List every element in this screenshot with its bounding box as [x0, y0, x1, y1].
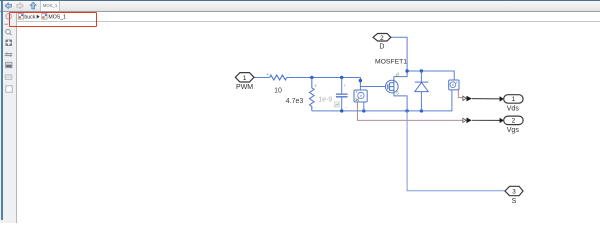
- PS-Simulink converter Vds: [463, 96, 472, 102]
- capacitor C1 leads: [341, 78, 343, 111]
- svg-text:V: V: [452, 83, 455, 87]
- wire source stub: [394, 93, 407, 111]
- square icon: [6, 86, 12, 92]
- wire from port D: [391, 37, 407, 71]
- svg-text:10: 10: [274, 87, 282, 94]
- wire diode bottom pin: [420, 92, 422, 111]
- back button: [5, 3, 11, 9]
- node junction gate sensor tap: [359, 79, 362, 82]
- top toolbar: [0, 0, 600, 12]
- left toolbar icons: [0, 12, 17, 102]
- PS-Simulink converter Vgs: [463, 118, 472, 124]
- svg-text:2: 2: [380, 35, 384, 42]
- zoom icon: [6, 29, 12, 35]
- node junction diode top: [420, 69, 423, 72]
- fit-to-view icon: [6, 40, 12, 46]
- port 1 PWM: [235, 73, 254, 92]
- svg-text:-: -: [288, 72, 290, 77]
- forward button (disabled): [17, 3, 23, 9]
- svg-text:1e-9: 1e-9: [318, 96, 332, 103]
- svg-text:1: 1: [243, 75, 247, 82]
- svg-text:2: 2: [512, 118, 516, 125]
- svg-text:V: V: [360, 93, 363, 98]
- svg-text:S: S: [512, 198, 517, 205]
- resistor R1 10: [270, 75, 287, 80]
- wire to MOSFET gate: [360, 86, 387, 88]
- signal wire to Vds port: [472, 98, 500, 100]
- left toolbar strip: [0, 12, 17, 223]
- svg-text:-: -: [345, 104, 347, 109]
- svg-text:+: +: [266, 72, 269, 77]
- port 2 D: [373, 34, 391, 51]
- hide browser button: [6, 14, 12, 20]
- wire PWM to R1: [254, 77, 270, 79]
- resistor R2 4.7e3: [309, 78, 314, 111]
- MOSFET Q1 MOSFET1: [386, 80, 399, 93]
- node junction R1-R2: [310, 76, 313, 79]
- dash icon: [5, 24, 8, 25]
- svg-text:3: 3: [512, 189, 516, 196]
- svg-text:Vgs: Vgs: [507, 127, 520, 134]
- wire drain stub: [394, 71, 407, 81]
- svg-text:-: -: [314, 105, 316, 110]
- toolbar buttons svg: [0, 0, 70, 12]
- outport 1 Vds: [504, 95, 523, 113]
- breadcrumb content: [17, 12, 117, 22]
- bottom rail wire: [312, 90, 452, 111]
- voltage sensor U2 Vds: [449, 80, 459, 91]
- model icon MOS_1: [42, 14, 47, 20]
- wire to port S: [407, 111, 505, 191]
- diode D1: [415, 82, 429, 92]
- svg-text:1: 1: [512, 96, 516, 103]
- svg-text:D: D: [379, 44, 384, 51]
- voltage sensor U1 Vgs: [354, 90, 367, 102]
- node junction Vgs sensor bottom: [362, 109, 365, 112]
- svg-text:d: d: [396, 72, 399, 78]
- wire R1 to gate node: [287, 77, 361, 79]
- C1 logging badge: [334, 102, 339, 107]
- swap arrows icon: [5, 52, 13, 57]
- outport 2 Vgs: [504, 116, 523, 134]
- up button: [30, 2, 36, 9]
- model icon buck: [18, 14, 23, 20]
- wire gate drop: [359, 78, 361, 91]
- wire top rail: [407, 71, 454, 80]
- PS line Vds sensor output: [458, 90, 463, 98]
- wire diode top pin: [420, 71, 422, 82]
- arrowhead at Vds port: [500, 96, 504, 101]
- svg-text:PWM: PWM: [236, 84, 253, 91]
- svg-text:Vds: Vds: [507, 105, 520, 112]
- node junction source S: [405, 109, 408, 112]
- image icon: [6, 62, 12, 68]
- breadcrumb separator: [37, 15, 40, 19]
- node junction cap top: [340, 76, 343, 79]
- port 3 S: [505, 186, 523, 205]
- svg-text:MOSFET1: MOSFET1: [375, 59, 407, 66]
- window left blue border: [1, 1, 3, 220]
- tab MOS_1: [40, 1, 60, 11]
- arrowhead at Vgs port: [500, 118, 504, 123]
- breadcrumb bar: [17, 12, 600, 22]
- svg-text:+: +: [343, 83, 346, 88]
- node junction drain: [405, 69, 408, 72]
- node junction diode bottom: [420, 109, 423, 112]
- capacitor C1 plates: [336, 94, 348, 97]
- grid icon: [5, 75, 12, 80]
- svg-text:4.7e3: 4.7e3: [286, 98, 304, 105]
- svg-text:+: +: [314, 84, 317, 89]
- node junction cap bottom: [340, 109, 343, 112]
- PS line Vgs sensor output: [357, 102, 463, 120]
- svg-text:+: +: [355, 90, 358, 95]
- signal wire to Vgs port: [472, 119, 500, 121]
- red annotation rectangle: [9, 12, 97, 28]
- wire Vgs sensor bottom pin: [363, 102, 365, 111]
